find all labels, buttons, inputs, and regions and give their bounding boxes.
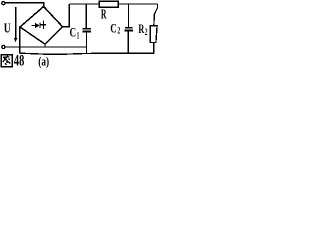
wire from bridge right vertex up to top rail	[63, 4, 70, 27]
terminal T1 (top-left input)	[2, 1, 5, 4]
capacitor C2	[125, 4, 133, 54]
wire top input from T1 to bridge top vertex	[5, 3, 43, 7]
wire bottom input from T2 to bridge bottom vertex and on to C1 lead	[5, 46, 86, 48]
bridge rectifier diamond	[20, 7, 63, 45]
wire from top rail down to R2	[154, 4, 158, 26]
svg-text:U: U	[4, 20, 11, 35]
resistor R2 (load box)	[150, 26, 157, 43]
wire from R2 down to bottom rail	[153, 43, 155, 54]
svg-text:R: R	[101, 6, 107, 21]
wire bottom rail	[20, 53, 154, 54]
svg-text:C: C	[70, 25, 77, 39]
svg-text:(a): (a)	[38, 55, 49, 68]
caption glyph 图 (hand drawn)	[1, 55, 12, 67]
terminal T2 (bottom-left input)	[2, 45, 5, 48]
label C2	[110, 21, 120, 36]
wire top rail left segment	[69, 3, 99, 5]
resistor R (series box on top rail)	[99, 1, 118, 7]
voltage arrow for U	[14, 7, 17, 42]
svg-text:2: 2	[145, 27, 148, 37]
svg-text:48: 48	[14, 53, 24, 68]
capacitor C1	[83, 4, 92, 54]
label R2	[138, 21, 147, 37]
wire top rail right segment	[118, 3, 157, 5]
svg-text:2: 2	[117, 27, 120, 37]
label C1	[70, 25, 80, 41]
diode symbol inside bridge	[31, 21, 46, 29]
svg-text:C: C	[110, 21, 117, 35]
wire stem bridge bottom vertex down to input wire	[44, 44, 46, 47]
svg-text:1: 1	[77, 32, 80, 42]
wire from bridge left vertex down to bottom rail	[19, 27, 21, 53]
